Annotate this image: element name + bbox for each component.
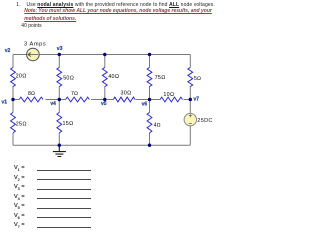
points line [21, 23, 41, 29]
node dot v5 [103, 98, 106, 101]
answer row V2 [14, 175, 25, 182]
svg-text:50Ω: 50Ω [63, 75, 74, 81]
resistor R 15ohm [57, 112, 62, 132]
resistor R 50ohm [57, 67, 62, 86]
svg-text:30Ω: 30Ω [121, 91, 132, 97]
svg-text:10Ω: 10Ω [163, 92, 174, 98]
wire top rail [13, 54, 190, 56]
current source I1 3 Amps [27, 48, 40, 61]
wire column v3-v4 [58, 55, 60, 146]
resistor R 20ohm [11, 67, 16, 86]
resistor R 5ohm [188, 67, 193, 86]
svg-text:25DC: 25DC [197, 118, 212, 124]
instruction line 1 [16, 2, 20, 8]
svg-text:v1: v1 [2, 100, 8, 106]
svg-text:20Ω: 20Ω [16, 73, 27, 79]
node dot ground [58, 144, 61, 147]
wire right column [189, 55, 191, 146]
wire column 40ohm [104, 55, 106, 100]
ground [53, 145, 66, 156]
svg-text:4Ω: 4Ω [154, 122, 161, 128]
svg-text:25Ω: 25Ω [16, 122, 27, 128]
svg-text:v5: v5 [101, 101, 107, 107]
resistor R 25ohm [11, 112, 16, 132]
wire left column [12, 55, 14, 146]
resistor R 75ohm [147, 67, 152, 86]
instruction note line 2 [24, 8, 212, 14]
resistor R 10ohm [160, 97, 182, 102]
instruction note line 3 [24, 16, 76, 22]
answer row V3 [14, 184, 25, 191]
wire bottom rail [13, 144, 190, 146]
resistor R 4ohm [147, 112, 152, 132]
resistor R 7ohm [66, 97, 90, 102]
svg-text:v6: v6 [142, 101, 148, 107]
resistor R 40ohm [102, 67, 107, 86]
answer row V6 [14, 213, 25, 220]
resistor R 30ohm [113, 97, 135, 102]
node dot v7 [189, 98, 192, 101]
wire middle rail [13, 99, 190, 101]
svg-text:8Ω: 8Ω [28, 91, 35, 97]
answer row V5 [14, 203, 25, 210]
node dot v6 [148, 98, 151, 101]
resistor R 8ohm [19, 97, 43, 102]
voltage source V 25DC [184, 113, 196, 125]
svg-text:15Ω: 15Ω [63, 121, 74, 127]
svg-text:40Ω: 40Ω [108, 74, 119, 80]
svg-text:75Ω: 75Ω [155, 75, 166, 81]
node dot top c4 [148, 53, 151, 56]
node dot bottom c4 [148, 144, 151, 147]
svg-text:v7: v7 [194, 97, 200, 103]
node dot top c3 [103, 53, 106, 56]
node dot v1 [11, 98, 14, 101]
node dot v4 [58, 98, 61, 101]
svg-text:3 Amps: 3 Amps [24, 41, 46, 47]
answer row V1 [14, 165, 25, 172]
node dot v3 [58, 53, 61, 56]
answer row V7 [14, 222, 25, 229]
svg-text:v2: v2 [5, 48, 11, 54]
svg-text:7Ω: 7Ω [71, 91, 78, 97]
svg-text:v4: v4 [50, 101, 56, 107]
answer row V4 [14, 194, 25, 201]
svg-text:5Ω: 5Ω [194, 76, 201, 82]
svg-text:v3: v3 [57, 46, 63, 52]
wire column v6 [149, 55, 151, 146]
